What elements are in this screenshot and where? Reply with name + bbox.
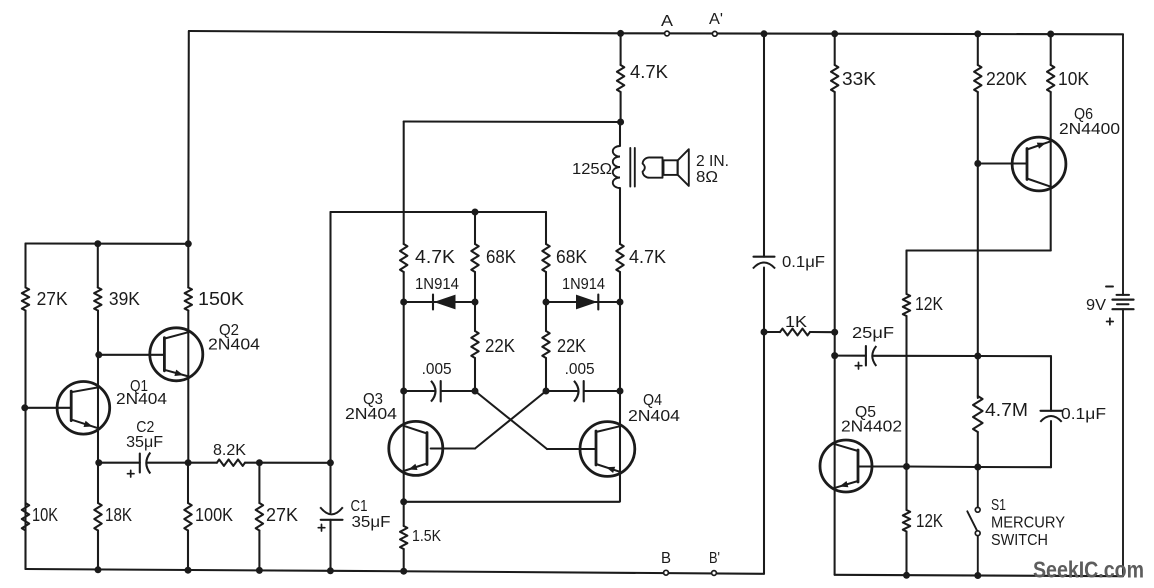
wire 220K column upper [977,34,979,164]
wire 100K to rail [187,531,189,571]
wire cross-coupling Q3base-to-right [431,391,546,449]
capacitor 0.1uF right [1040,406,1106,423]
junction 27K bottom-group top [256,459,263,466]
svg-text:150K: 150K [198,289,244,309]
resistor 22K left [471,331,515,358]
wire switch node to 0.1uF right [978,466,1051,468]
node A-prime [709,11,723,36]
wire C1 to rail [329,520,331,571]
wire 68K-left column [474,212,476,302]
wire diode row left [404,301,475,303]
resistor 1K [780,314,810,335]
wire 33K column upper [834,34,836,332]
svg-text:MERCURY: MERCURY [991,515,1065,532]
wire 4.7K-top column [620,33,622,122]
resistor 12K upper [903,294,943,316]
junction C2 left [95,459,102,466]
wire 25uF row left [835,355,866,357]
wire 150K column top [187,31,190,244]
wire 10K-right column [1050,34,1052,251]
svg-text:4.7K: 4.7K [630,62,668,82]
wire Q6 base [978,162,1027,164]
svg-text:9V: 9V [1086,297,1106,314]
wire 0.1uF-right column upper [1050,356,1052,411]
junction 100K top [185,459,192,466]
svg-text:4.7K: 4.7K [415,247,455,267]
transistor Q2 2N404 [150,322,261,381]
svg-text:S1: S1 [991,497,1006,514]
svg-text:8Ω: 8Ω [696,169,718,186]
capacitor .005 right [565,361,595,402]
svg-text:68K: 68K [486,247,516,267]
svg-text:1.5K: 1.5K [412,528,441,545]
wire C2 to 8.2K [147,462,217,464]
svg-text:12K: 12K [915,294,943,314]
wire diode row right [546,301,620,303]
junction 1K right [831,329,838,336]
svg-text:22K: 22K [485,336,515,356]
wire 22K-right column [545,302,547,391]
junction 4.7M top [974,353,981,360]
resistor 18K [94,503,132,531]
svg-text:68K: 68K [556,247,587,267]
junction Q1 base node [21,404,28,411]
wire 4.7K-right column [619,122,621,302]
svg-text:2N404: 2N404 [208,337,260,354]
wire Q2 base [99,354,165,356]
junction 0.1uF column top [761,30,768,37]
junction Q6 base node [974,160,981,167]
svg-text:10K: 10K [32,505,58,525]
junction diode row right-1 [543,299,550,306]
svg-text:12K: 12K [916,511,943,531]
svg-text:1N914: 1N914 [415,276,459,293]
resistor 10K right [1047,65,1089,92]
transistor Q3 2N404 [345,391,443,475]
resistor 4.7K right [616,244,666,272]
wire cap row left segments [404,390,475,392]
wire 12K column upper [905,251,907,467]
svg-text:.005: .005 [565,361,595,378]
junction cap row nodes [400,388,623,395]
wire 10K to rail [24,531,26,570]
svg-text:35μF: 35μF [352,514,391,531]
wire C1 column upper [329,212,331,513]
svg-text:33K: 33K [842,69,876,89]
transformer primary 125 ohm [572,146,635,188]
capacitor 0.1uF left [753,254,825,271]
svg-text:2N404: 2N404 [116,391,167,408]
junction 33K top [831,30,838,37]
transistor Q1 2N404 [57,378,167,434]
junction 4.7K-top rail node [617,30,624,37]
wire 12K column lower [905,467,907,576]
wire 0.1uF column lower [763,268,765,574]
junction bottom right nodes [903,572,981,579]
resistor 68K right [542,244,587,272]
resistor 10K [22,503,58,531]
wire emitter row [404,501,620,503]
wire 68K-right column [545,212,547,302]
junction 10K-right top [1047,31,1054,38]
svg-text:39K: 39K [109,289,140,309]
svg-text:A: A [661,13,674,30]
junction speaker node [617,119,624,126]
node A [661,13,674,36]
junction Q5 base node [903,463,910,470]
wire 1K row left [764,331,780,333]
wire 220K column lower [977,164,979,357]
svg-text:SWITCH: SWITCH [991,532,1048,549]
resistor 33K [831,65,876,92]
svg-text:Q4: Q4 [643,392,662,409]
svg-text:27K: 27K [37,289,68,309]
wire Q5 chord column [834,332,836,575]
svg-text:2N404: 2N404 [345,406,397,423]
svg-text:25μF: 25μF [852,325,894,342]
wire bottom ground rail [26,569,765,574]
node B-prime [709,550,720,575]
svg-text:35μF: 35μF [126,434,163,451]
svg-text:2N4400: 2N4400 [1059,121,1120,138]
capacitor .005 left [422,361,452,402]
junction 39K top [94,240,101,247]
svg-text:2 IN.: 2 IN. [696,153,729,170]
wire 4.7M leads [977,356,979,467]
junction Q2 base node [95,351,102,358]
wire 39K column [97,244,99,570]
wire 4.7K-right column lower [619,302,621,391]
wire 18K to rail [97,531,99,570]
wire Q5 base row [858,465,907,467]
resistor 4.7K left [400,244,455,272]
wire base row to switch node [907,465,978,468]
wire 1K row right [810,331,835,333]
junction 220K top [974,30,981,37]
junction switch top node [974,464,981,471]
wire Q3 chord [403,391,405,502]
junction 68K-left top [472,209,479,216]
capacitor 25uF [852,325,894,369]
svg-text:10K: 10K [1058,69,1089,89]
svg-text:2N404: 2N404 [628,408,680,425]
svg-text:A': A' [709,11,723,28]
wire Q3 collector top row [404,120,621,123]
wire Q1 base [26,407,72,409]
svg-text:220K: 220K [986,69,1027,89]
wire 0.1uF column upper [763,34,765,257]
resistor 12K lower [903,510,943,532]
svg-text:2N4402: 2N4402 [841,419,902,436]
wire 27K column [24,244,26,570]
wire 0.1uF-right column lower [1050,421,1052,467]
diode 1N914 left [415,276,459,310]
svg-text:0.1μF: 0.1μF [782,254,825,271]
junction diode row right-2 [617,299,624,306]
svg-text:4.7K: 4.7K [629,247,666,267]
wire 4.7K-left column [403,122,405,303]
junction 1K left [761,329,768,336]
switch S1 mercury [967,467,1065,576]
capacitor C2 35uF [126,419,163,477]
resistor 22K right [542,331,586,358]
wire 25uF row to 0.1uF right [978,355,1051,357]
wire Q4 chord [619,391,621,502]
junction diode row left-2 [472,299,479,306]
resistor 68K left [471,244,516,272]
junction bottom rail nodes [95,566,408,574]
svg-text:B': B' [709,550,720,567]
junction 25uF left [831,352,838,359]
svg-text:18K: 18K [105,505,132,525]
transistor Q4 2N404 [580,392,680,476]
resistor 220K [974,65,1027,92]
svg-text:125Ω: 125Ω [572,161,612,178]
transistor Q5 2N4402 [820,404,902,492]
svg-text:27K: 27K [266,505,298,525]
wire 22K-left column [474,302,476,391]
svg-text:8.2K: 8.2K [213,442,246,459]
wire top supply rail [189,31,1123,34]
node B [661,550,671,575]
wire 150K column [187,244,189,570]
wire flip-flop top row [331,211,547,213]
svg-text:C1: C1 [351,498,368,515]
svg-text:.005: .005 [422,361,452,378]
svg-text:1N914: 1N914 [562,276,605,293]
resistor 4.7M [973,396,1028,432]
resistor 8.2K [213,442,246,466]
wire 27K-lower to rail [258,531,260,571]
svg-text:4.7M: 4.7M [985,400,1028,420]
wire C2 row left [99,462,140,464]
wire 8.2K to C1 column [245,462,330,464]
resistor 4.7K top [617,62,668,92]
junction Q3 emitter node [400,498,407,505]
svg-text:100K: 100K [195,505,233,525]
junction diode row left-1 [400,299,407,306]
wire cap row right segments [546,390,620,392]
svg-text:SeekIC.com: SeekIC.com [1033,557,1144,583]
capacitor C1 35uF [318,498,390,531]
resistor 150K [185,288,244,311]
resistor 1.5K [400,526,441,549]
junction 150K column top [185,240,192,247]
resistor 27K lower [256,503,298,531]
svg-text:22K: 22K [557,336,586,356]
battery 9V [1086,34,1134,576]
wire cross-coupling Q4base-to-left [475,391,596,449]
svg-text:B: B [661,550,671,567]
transistor Q6 2N4400 [1012,106,1120,191]
resistor 27K [22,288,68,311]
resistor 39K [94,288,140,311]
wire 25uF row right [873,355,978,357]
resistor 100K [184,503,233,531]
wire Q6 emitter row [907,249,1051,251]
diode 1N914 right [562,276,605,310]
wire 1.5K column [403,502,405,571]
wire left bias rail [26,242,189,244]
wire 27K-lower column [258,463,260,503]
svg-text:0.1μF: 0.1μF [1061,406,1106,423]
speaker 2in 8 ohm [643,149,729,186]
wire bottom right rail [835,575,1123,576]
svg-text:1K: 1K [785,314,807,331]
junction C1 column node [327,459,334,466]
wire 4.7K-left column lower [403,302,405,391]
